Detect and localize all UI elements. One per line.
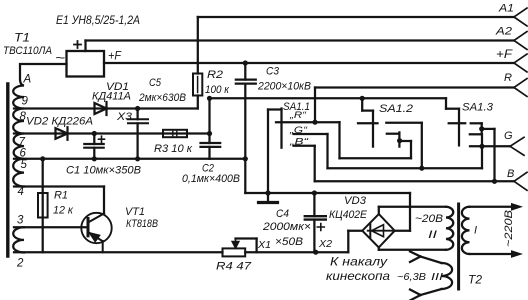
wire A2 line xyxy=(86,39,515,41)
svg-text:+F: +F xyxy=(496,49,513,61)
label quote B xyxy=(289,137,310,148)
svg-text:ТВС110ЛА: ТВС110ЛА xyxy=(3,45,52,57)
output connector G chevron xyxy=(510,137,524,155)
wire B line xyxy=(315,180,514,182)
wire R4 to bridge xyxy=(245,251,348,253)
label T1 xyxy=(14,31,30,45)
svg-text:9: 9 xyxy=(22,96,29,108)
wire SA1.3 to B column xyxy=(482,129,495,181)
junction dot R takeoff xyxy=(312,120,317,125)
switch SA1.3 contact xyxy=(470,123,482,134)
junction dot C1 bottom xyxy=(92,156,97,161)
switch SA1.1 common leg to ground xyxy=(268,109,282,203)
wire switch feed line xyxy=(210,98,460,145)
wire node column xyxy=(208,98,210,143)
svg-text:SA1.3: SA1.3 xyxy=(462,102,494,114)
svg-text:3: 3 xyxy=(17,215,24,227)
svg-text:С3: С3 xyxy=(266,66,280,78)
svg-text:кинескопа: кинескопа xyxy=(326,271,390,283)
rectifier bridge VD3 xyxy=(362,214,394,247)
resistor R2 xyxy=(193,74,202,96)
transformer T1 winding lower section (pins 3-2) xyxy=(13,227,24,252)
svg-text:~20В: ~20В xyxy=(415,213,443,225)
transistor VT1 xyxy=(81,213,111,252)
label SA1.2 xyxy=(379,103,413,115)
label +F at E1 xyxy=(108,49,122,63)
capacitor C2 xyxy=(201,143,221,159)
ground chassis bar xyxy=(259,201,278,204)
label VD3 xyxy=(344,195,367,207)
label KD411A xyxy=(92,91,131,103)
svg-text:А2: А2 xyxy=(495,26,512,38)
label +F output xyxy=(496,49,513,61)
svg-text:II: II xyxy=(428,229,437,241)
switch SA1.1 G contact wire xyxy=(294,133,328,135)
pin label 6 xyxy=(20,148,27,160)
label KC402E xyxy=(329,209,368,221)
svg-text:R2: R2 xyxy=(207,69,223,81)
label G xyxy=(504,130,513,142)
switch SA1.2 contact wire xyxy=(386,123,422,168)
output connector R chevron xyxy=(514,79,527,97)
wire SA1.3 G column xyxy=(481,134,483,168)
wire pin8 line xyxy=(14,132,210,134)
label quote G xyxy=(289,125,308,136)
svg-text:VD3: VD3 xyxy=(344,195,367,207)
svg-text:КТ818В: КТ818В xyxy=(126,218,158,230)
svg-text:SA1.2: SA1.2 xyxy=(379,103,413,115)
label 2mk630V xyxy=(138,92,186,104)
label X1 xyxy=(257,239,271,251)
label C3 xyxy=(266,66,280,78)
diode VD1 xyxy=(95,102,107,115)
svg-text:~: ~ xyxy=(55,50,66,65)
label X3 xyxy=(116,111,133,123)
transformer T1 core xyxy=(6,84,9,256)
svg-text:А1: А1 xyxy=(498,3,514,15)
svg-text:Х2: Х2 xyxy=(318,238,332,250)
label R2 xyxy=(207,69,223,81)
label TVS110LA xyxy=(3,45,52,57)
capacitor C5 xyxy=(128,109,148,134)
node X3 junction dot xyxy=(135,106,140,111)
resistor R1 xyxy=(38,193,48,218)
pin label 7 xyxy=(19,137,26,149)
resistor R4 variable xyxy=(223,248,246,256)
junction dot SA1.2 feed xyxy=(360,96,365,101)
label 0,1mk400V xyxy=(182,173,240,185)
wire G wire down xyxy=(328,134,483,168)
switch SA1.1 R contact wire xyxy=(276,121,340,123)
junction dot C5 bus xyxy=(135,156,140,161)
label SA1.1 xyxy=(283,101,310,113)
junction dot SA1.2 on G row xyxy=(419,166,424,171)
wire pin3 to base xyxy=(14,226,87,228)
svg-text:I: I xyxy=(474,225,477,237)
label 100k xyxy=(205,84,230,96)
E1 + mark xyxy=(74,41,81,48)
label ~6,3V xyxy=(397,271,426,283)
svg-text:2200×10кВ: 2200×10кВ xyxy=(257,81,311,93)
switch SA1.1 B contact wire xyxy=(294,145,315,147)
svg-text:2: 2 xyxy=(16,258,24,270)
junction dot SA1.3 contact xyxy=(479,126,484,131)
label VD2 KD226A xyxy=(26,116,93,128)
label T2 xyxy=(468,275,483,287)
label I xyxy=(474,225,477,237)
junction dot C4 top xyxy=(312,190,317,195)
wire C5 lower to bus xyxy=(136,134,138,159)
label ~220V rotated xyxy=(503,210,515,247)
output connector +F chevron xyxy=(514,54,527,72)
junction dot SA1.2 detail xyxy=(397,138,402,143)
pin label 9 xyxy=(22,96,29,108)
svg-text:VD2 КД226А: VD2 КД226А xyxy=(26,116,93,128)
svg-text:В: В xyxy=(507,168,514,180)
wire up to bridge left corner xyxy=(348,231,362,253)
svg-text:100 к: 100 к xyxy=(205,84,230,96)
label 12k xyxy=(53,205,74,217)
label II xyxy=(428,229,437,241)
pin label 2 xyxy=(16,258,24,270)
pin label 4 xyxy=(18,186,24,198)
switch SA1.2 contact detail xyxy=(387,132,400,146)
wire R wire down xyxy=(340,122,412,158)
junction dot C3 top on +F xyxy=(243,60,248,65)
capacitor C3 xyxy=(236,63,256,159)
label A2 xyxy=(495,26,512,38)
R4 wiper arrow xyxy=(232,239,256,253)
label C1 10mk350V xyxy=(66,165,141,177)
svg-text:R1: R1 xyxy=(54,190,68,202)
label C2 xyxy=(202,163,214,175)
label K nakalu xyxy=(330,257,389,269)
wire R line xyxy=(315,86,514,88)
svg-text:+F: +F xyxy=(108,49,122,63)
transformer T1 primary winding upper section with wire to node A xyxy=(13,64,66,187)
E1 ~ input mark xyxy=(55,50,66,65)
label ~20V xyxy=(415,213,443,225)
svg-text:G: G xyxy=(504,130,513,142)
wire A1 to R2 vertical xyxy=(197,17,199,74)
label A1 xyxy=(498,3,514,15)
wire winding I bottom to mains xyxy=(470,250,524,258)
transformer T2 core xyxy=(457,204,460,289)
junction dot ground leg on bus xyxy=(265,190,270,195)
wire A1 line xyxy=(198,16,514,18)
svg-text:Х3: Х3 xyxy=(116,111,133,123)
svg-text:12 к: 12 к xyxy=(53,205,74,217)
label R1 xyxy=(54,190,68,202)
svg-text:С1 10мк×350В: С1 10мк×350В xyxy=(66,165,141,177)
svg-text:~6,3В: ~6,3В xyxy=(397,271,426,283)
wire E1 top output to A2 line xyxy=(84,41,86,52)
pin label 5 xyxy=(21,159,28,171)
svg-text:„R“: „R“ xyxy=(289,110,307,121)
transformer T2 winding II xyxy=(446,207,453,250)
wire R1 column xyxy=(42,159,44,252)
capacitor C4 polarized xyxy=(305,193,326,252)
label KT818V xyxy=(126,218,158,230)
wire R2 bottom to node xyxy=(197,96,199,109)
junction dot B column xyxy=(492,179,497,184)
diode VD2 xyxy=(56,127,68,140)
wire R contact up to R line xyxy=(314,88,316,123)
wire ground bus xyxy=(245,159,410,231)
junction dot X1 node xyxy=(313,250,318,255)
label 2000mk xyxy=(262,221,311,233)
wire pin2 emitter line xyxy=(14,251,223,253)
wire G line xyxy=(470,145,510,147)
wire winding I top to mains xyxy=(470,203,524,211)
junction dot R3 right xyxy=(207,131,212,136)
label R xyxy=(504,72,512,84)
label x50V xyxy=(275,236,303,248)
svg-text:Е1 УН8,5/25-1,2А: Е1 УН8,5/25-1,2А xyxy=(56,13,140,27)
wire pin4 to collector xyxy=(14,187,104,214)
label kineskopa xyxy=(326,271,390,283)
label C4 xyxy=(276,208,289,220)
svg-text:С5: С5 xyxy=(149,77,162,89)
switch SA1.3 pole tick xyxy=(449,122,466,124)
wire B wire down xyxy=(314,146,316,182)
wire +F line xyxy=(104,62,514,64)
svg-text:Т2: Т2 xyxy=(468,275,483,287)
switch SA1.2 feed xyxy=(362,98,373,146)
resistor R3 xyxy=(163,130,187,137)
label C5 xyxy=(149,77,162,89)
label R4 47 xyxy=(216,261,252,273)
label R3 10k xyxy=(154,143,193,155)
wire pin6 bus xyxy=(14,158,245,160)
switch SA1.2 pole tick xyxy=(358,122,378,124)
pin label 3 xyxy=(17,215,24,227)
pin label 8 xyxy=(20,111,27,123)
transformer T2 winding III xyxy=(442,263,453,289)
svg-text:5: 5 xyxy=(21,159,28,171)
output connector B chevron xyxy=(514,172,527,190)
capacitor C1 polarized xyxy=(84,134,104,159)
output connector A2 chevron xyxy=(514,32,527,50)
svg-text:T1: T1 xyxy=(14,31,30,45)
junction dot C3 bottom xyxy=(243,156,248,161)
voltage multiplier E1 box xyxy=(67,51,105,77)
transformer T2 winding I xyxy=(462,207,470,254)
wire winding III top terminal xyxy=(410,252,442,264)
junction dot G column xyxy=(479,144,484,149)
svg-text:С4: С4 xyxy=(276,208,289,220)
svg-text:КЦ402Е: КЦ402Е xyxy=(329,209,368,221)
wire winding III bottom terminal xyxy=(410,289,442,300)
svg-text:×50В: ×50В xyxy=(275,236,303,248)
junction dot R1 top xyxy=(40,156,45,161)
svg-text:R: R xyxy=(504,72,512,84)
svg-text:R4 47: R4 47 xyxy=(216,261,252,273)
label SA1.3 xyxy=(462,102,494,114)
svg-text:R3 10 к: R3 10 к xyxy=(154,143,193,155)
wire bridge top to winding II xyxy=(379,207,446,214)
label quote R xyxy=(289,110,307,121)
label VT1 xyxy=(125,206,145,218)
svg-text:~220В: ~220В xyxy=(503,210,515,247)
junction dot top node xyxy=(207,96,212,101)
output connector A1 chevron xyxy=(514,8,527,26)
junction dot C1 top xyxy=(92,131,97,136)
svg-text:К накалу: К накалу xyxy=(330,257,389,269)
label B xyxy=(507,168,514,180)
svg-text:2мк×630В: 2мк×630В xyxy=(138,92,186,104)
pin label А xyxy=(23,74,32,86)
label E1 UN8,5/25-1,2A xyxy=(56,13,140,27)
wire pin9 line xyxy=(14,107,198,109)
svg-text:КД411А: КД411А xyxy=(92,91,131,103)
wire bridge bottom to winding II xyxy=(379,247,446,249)
svg-text:III: III xyxy=(431,271,443,283)
label III xyxy=(431,271,443,283)
svg-text:Х1: Х1 xyxy=(257,239,271,251)
label 2200x10kV xyxy=(257,81,311,93)
svg-text:VT1: VT1 xyxy=(125,206,145,218)
svg-text:0,1мк×400В: 0,1мк×400В xyxy=(182,173,240,185)
svg-text:А: А xyxy=(23,74,32,86)
svg-text:2000мк×: 2000мк× xyxy=(262,221,311,233)
label X2 xyxy=(318,238,332,250)
svg-text:4: 4 xyxy=(18,186,24,198)
label VD1 xyxy=(106,81,129,93)
